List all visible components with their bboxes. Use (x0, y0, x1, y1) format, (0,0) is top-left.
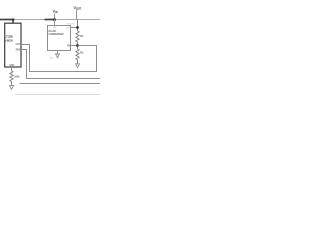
svg-text:CONVERTER: CONVERTER (49, 33, 64, 36)
svg-text:FB: FB (67, 44, 70, 47)
wire VOUT label tick (76, 10, 78, 20)
wire R1 to tap (77, 42, 79, 49)
wire top VIN rail (0, 19, 100, 21)
wire R3 to ground (11, 82, 13, 86)
svg-text:OUT: OUT (76, 9, 81, 11)
resistor R3 (10, 71, 13, 82)
wire VIN label tick (54, 14, 56, 20)
node junction FB tap (76, 44, 79, 47)
wire OUT pin to rail (71, 27, 78, 29)
svg-text:LT1073: LT1073 (67, 24, 75, 26)
svg-text:GND: GND (9, 65, 14, 67)
svg-text:REF: REF (16, 49, 21, 51)
resistor R2 (76, 49, 79, 60)
wire feedback tap loop (21, 45, 97, 72)
svg-text:IN: IN (55, 12, 58, 14)
wire top rail dark segment left (0, 19, 15, 21)
faint rule (15, 94, 100, 96)
resistor R1 (76, 31, 79, 42)
ground below converter (57, 51, 59, 55)
wire R2 to ground (77, 60, 79, 64)
wire IC IN pin run (21, 50, 100, 79)
svg-text:10M: 10M (14, 74, 20, 78)
wire top rail dark segment mid (45, 19, 56, 21)
svg-text:GND: GND (50, 58, 55, 60)
ground below divider (76, 64, 80, 68)
ground below R3 (10, 86, 14, 90)
node junction VIN (53, 18, 56, 21)
node junction at IC top (12, 18, 14, 20)
node junction OUT (76, 26, 79, 29)
svg-text:R2: R2 (80, 51, 84, 55)
wire IC top to rail (12, 20, 14, 24)
svg-text:OUT: OUT (15, 44, 20, 46)
svg-text:LT1389: LT1389 (5, 35, 14, 38)
wire IC GND pin down (11, 67, 13, 71)
IC U1 box (5, 23, 21, 67)
svg-text:R1: R1 (80, 34, 84, 38)
DC-DC converter U2 box (48, 26, 71, 51)
wire FB pin to tap (71, 45, 78, 47)
wire bottom bus (20, 83, 101, 85)
wire rail to converter VIN pin (54, 19, 56, 25)
wire VOUT rail down to divider (77, 20, 79, 32)
svg-text:V-MON: V-MON (5, 39, 13, 42)
